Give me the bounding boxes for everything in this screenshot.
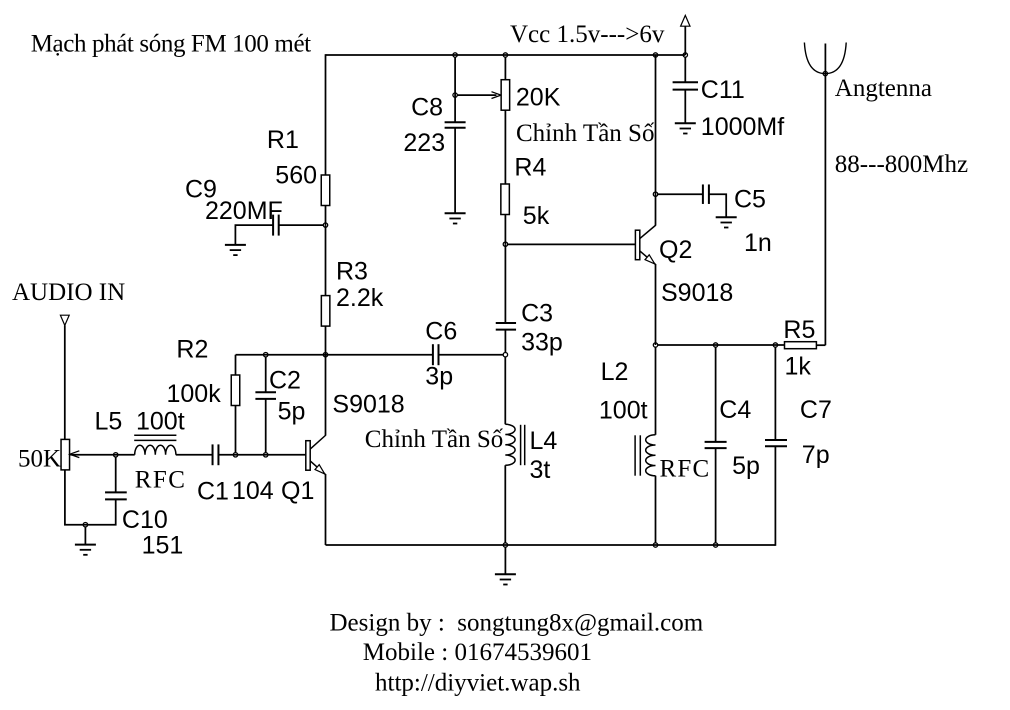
- node Q2 collector top junction: [653, 53, 657, 57]
- label Design by : songtung8x@gmail.com: [330, 610, 704, 637]
- label 100t: [599, 397, 648, 425]
- label R1: [267, 126, 299, 154]
- ground (C8): [445, 213, 466, 223]
- node L2 rail junction: [653, 543, 657, 547]
- wire C3 bottom lead: [504, 330, 506, 353]
- svg-text:50K: 50K: [18, 446, 61, 473]
- label http://diyviet.wap.sh: [375, 670, 581, 697]
- transistor Q2 emitter arrow: [645, 255, 655, 264]
- svg-text:RFC: RFC: [135, 467, 187, 494]
- svg-text:100k: 100k: [167, 380, 222, 408]
- node L4 rail junction: [503, 543, 507, 547]
- wire C3 top lead: [504, 244, 506, 323]
- node C2/base junction: [264, 453, 268, 457]
- svg-text:C7: C7: [800, 396, 832, 424]
- svg-text:3t: 3t: [530, 456, 551, 484]
- capacitor C6: [433, 344, 439, 365]
- svg-text:C10: C10: [122, 506, 168, 534]
- svg-text:Chỉnh Tần Số: Chỉnh Tần Số: [365, 426, 504, 453]
- label Chỉnh Tần Số: [365, 426, 504, 453]
- label C8: [411, 94, 443, 122]
- svg-text:5p: 5p: [732, 452, 760, 480]
- label S9018: [332, 390, 404, 418]
- label 88---800Mhz: [835, 151, 968, 178]
- label 3p: [425, 363, 453, 391]
- node C5 junction: [653, 192, 657, 196]
- wire C4 bottom lead: [715, 448, 717, 543]
- inductor L4 coil: [505, 424, 515, 465]
- wire pot bottom to ground rail: [65, 470, 116, 525]
- node C9/R3 junction: [323, 223, 327, 227]
- wire L5 to C1: [176, 454, 213, 456]
- svg-text:Q1: Q1: [281, 477, 314, 505]
- svg-text:Design by : songtung8x@gmail.: Design by : songtung8x@gmail.com: [330, 610, 704, 637]
- svg-text:R4: R4: [514, 154, 546, 182]
- wire Q2 base horizontal: [508, 243, 636, 245]
- svg-text:5p: 5p: [278, 398, 306, 426]
- wire C9 left plate to ground: [235, 225, 273, 245]
- label 7p: [802, 441, 830, 469]
- label 20K: [516, 84, 561, 112]
- node C2 top junction: [264, 353, 268, 357]
- label C4: [719, 396, 751, 424]
- wire C11 to ground: [684, 90, 686, 124]
- node R2/base junction: [233, 453, 237, 457]
- label RFC: [135, 467, 187, 494]
- wire junction to Q1 collector: [325, 355, 327, 436]
- label 5p: [732, 452, 760, 480]
- wire rail ground stem: [504, 547, 506, 574]
- svg-text:C3: C3: [521, 300, 553, 328]
- svg-text:C11: C11: [701, 76, 745, 104]
- svg-text:100t: 100t: [136, 408, 185, 436]
- label C7: [800, 396, 832, 424]
- svg-text:RFC: RFC: [660, 456, 711, 483]
- transistor Q1 collector: [310, 435, 326, 449]
- potentiometer 50K: [61, 439, 70, 470]
- svg-text:R5: R5: [783, 316, 815, 344]
- svg-text:1000Mf: 1000Mf: [701, 113, 784, 141]
- wire C7 bottom lead: [774, 446, 776, 546]
- label 2.2k: [336, 284, 384, 312]
- wire R3 to oscillator node: [325, 326, 327, 355]
- capacitor C2: [255, 392, 276, 399]
- svg-text:http://diyviet.wap.sh: http://diyviet.wap.sh: [375, 670, 581, 697]
- svg-text:151: 151: [142, 532, 184, 560]
- svg-text:Q2: Q2: [659, 236, 692, 264]
- transistor Q2 collector: [640, 225, 656, 239]
- svg-text:Mạch phát sóng FM 100 mét: Mạch phát sóng FM 100 mét: [31, 31, 311, 58]
- label C10: [122, 506, 168, 534]
- wire C8 to ground: [454, 128, 456, 214]
- capacitor C9: [273, 215, 279, 236]
- svg-text:AUDIO IN: AUDIO IN: [12, 279, 125, 306]
- wire C2 bottom lead: [265, 399, 267, 452]
- svg-text:33p: 33p: [521, 329, 563, 357]
- wire C2 top lead: [265, 357, 267, 392]
- wire R2 vertical top: [235, 355, 237, 375]
- ground (C9): [225, 245, 246, 255]
- label Q2: [659, 236, 692, 264]
- svg-text:C2: C2: [269, 367, 301, 395]
- inductor L2 core: [635, 435, 640, 475]
- label C6: [425, 318, 457, 346]
- wire C5 to ground: [709, 194, 726, 217]
- label 151: [142, 532, 184, 560]
- wire C9 node to R3: [325, 225, 327, 296]
- label C11: [701, 76, 745, 104]
- transistor Q2 base bar: [635, 230, 639, 260]
- svg-text:R2: R2: [176, 336, 208, 364]
- capacitor C1: [213, 444, 219, 465]
- resistor R4: [501, 184, 510, 215]
- label L5: [95, 408, 123, 436]
- antenna symbol: [804, 43, 846, 74]
- wire Q2 emitter to output node: [655, 264, 657, 345]
- label 223: [403, 129, 445, 157]
- node R4/C3/Q2-base junction: [503, 242, 507, 246]
- node 20K top junction: [503, 53, 507, 57]
- transistor Q1 emitter: [310, 461, 325, 475]
- svg-text:L4: L4: [530, 427, 558, 455]
- label C9: [185, 176, 217, 204]
- svg-text:88---800Mhz: 88---800Mhz: [835, 151, 968, 178]
- wire wiper to 20K pot: [457, 94, 496, 96]
- power arrow Vcc: [681, 15, 690, 26]
- wire output rail: [658, 344, 785, 346]
- label 104: [232, 477, 274, 505]
- label C3: [521, 300, 553, 328]
- inductor L5 core: [134, 435, 176, 440]
- wire Vcc to Q2 collector: [655, 55, 657, 225]
- label 3t: [530, 456, 551, 484]
- label 1k: [785, 353, 812, 381]
- inductor L5 (RFC) coil: [135, 445, 176, 455]
- wiper arrow 50K: [70, 451, 80, 458]
- wire C4 top lead: [715, 347, 717, 442]
- wire C10 top lead: [115, 457, 117, 492]
- wire L4 to rail: [504, 465, 506, 542]
- wire C9 right plate to node: [279, 224, 324, 226]
- wire R2 to audio rail: [235, 406, 237, 453]
- label RFC: [660, 456, 711, 483]
- ground (C5): [716, 217, 737, 227]
- svg-text:20K: 20K: [516, 84, 561, 112]
- svg-text:1n: 1n: [744, 229, 772, 257]
- wire ground stem (C10 node): [84, 527, 86, 545]
- svg-text:S9018: S9018: [332, 390, 404, 418]
- svg-text:L2: L2: [601, 358, 629, 386]
- ground (C11): [675, 123, 696, 133]
- node C8 top junction: [453, 53, 457, 57]
- inductor L4 core: [521, 425, 525, 465]
- label Chỉnh Tần Số: [516, 120, 655, 147]
- wire 20K to R4: [504, 110, 506, 184]
- label Vcc 1.5v---&gt;6v: [510, 21, 665, 48]
- wire C1 to Q1 base: [218, 454, 305, 456]
- node Vcc/C11 junction: [683, 53, 687, 57]
- svg-text:560: 560: [275, 162, 317, 190]
- label L4: [530, 427, 558, 455]
- resistor R2: [231, 375, 240, 406]
- svg-text:R1: R1: [267, 126, 299, 154]
- wire Q1 emitter to ground rail: [325, 474, 327, 545]
- capacitor C5: [703, 184, 709, 204]
- resistor R3: [321, 296, 330, 327]
- svg-text:C5: C5: [734, 186, 766, 214]
- label Mobile : 01674539601: [363, 639, 592, 666]
- inductor L2 (RFC) coil: [646, 435, 656, 476]
- wire R1 to C9 node: [325, 206, 327, 226]
- wire C5 horizontal: [658, 193, 703, 195]
- node C4 top junction: [713, 343, 717, 347]
- label 220MF: [205, 197, 283, 225]
- input terminal AUDIO IN: [60, 315, 69, 325]
- capacitor C10: [105, 492, 127, 499]
- transistor Q2 emitter: [640, 251, 656, 265]
- wire Vcc top rail: [326, 54, 686, 56]
- node C3/L4 junction: [503, 353, 507, 357]
- wire antenna feed line: [824, 44, 826, 346]
- label 100t: [136, 408, 185, 436]
- svg-text:2.2k: 2.2k: [336, 284, 384, 312]
- label C1: [197, 478, 229, 506]
- svg-text:C6: C6: [425, 318, 457, 346]
- label 100k: [167, 380, 222, 408]
- label Mạch phát sóng FM 100 mét: [31, 31, 311, 58]
- svg-text:5k: 5k: [523, 202, 550, 230]
- node Q2 emitter/output junction: [653, 343, 657, 347]
- label 5k: [523, 202, 550, 230]
- wire audio input vertical: [64, 325, 66, 439]
- wire C7 top lead: [774, 347, 776, 440]
- node C10/audio junction: [114, 453, 118, 457]
- node antenna feed: [823, 71, 827, 75]
- svg-text:C1: C1: [197, 478, 229, 506]
- transistor Q1 base bar: [306, 441, 310, 471]
- svg-text:1k: 1k: [785, 353, 812, 381]
- wire L2 top lead: [655, 347, 657, 435]
- wire wiper to L5: [70, 454, 134, 456]
- wire R2 top to C6 left: [236, 354, 433, 356]
- label C2: [269, 367, 301, 395]
- svg-text:C8: C8: [411, 94, 443, 122]
- svg-text:C4: C4: [719, 396, 751, 424]
- capacitor C4: [705, 442, 727, 448]
- resistor R1: [321, 175, 330, 206]
- wire C6 right plate to C3 node: [439, 354, 504, 356]
- resistor R5: [785, 342, 817, 349]
- svg-text:220MF: 220MF: [205, 197, 283, 225]
- wire C8 vertical top: [454, 57, 456, 122]
- label R2: [176, 336, 208, 364]
- label 50K: [18, 446, 61, 473]
- label R5: [783, 316, 815, 344]
- label R3: [336, 258, 368, 286]
- svg-text:L5: L5: [95, 408, 123, 436]
- svg-text:223: 223: [403, 129, 445, 157]
- wire C11 top lead: [684, 57, 686, 82]
- svg-text:Mobile : 01674539601: Mobile : 01674539601: [363, 639, 592, 666]
- label AUDIO IN: [12, 279, 125, 306]
- wire Vcc to 20K pot: [504, 57, 506, 79]
- node C8 wiper junction: [453, 93, 457, 97]
- capacitor C8: [445, 122, 466, 128]
- label 1n: [744, 229, 772, 257]
- wire Vcc arrow stem: [684, 26, 686, 55]
- capacitor C7: [765, 440, 787, 446]
- node C7/R5 junction: [773, 343, 777, 347]
- wire L4 top lead: [504, 357, 506, 424]
- svg-text:Angtenna: Angtenna: [835, 75, 932, 102]
- transistor Q1 emitter arrow: [315, 465, 325, 474]
- node C10 ground junction: [83, 523, 87, 527]
- wire L2 to rail: [655, 476, 657, 543]
- ground (main rail): [495, 574, 516, 584]
- svg-text:R3: R3: [336, 258, 368, 286]
- label R4: [514, 154, 546, 182]
- ground (audio input): [75, 545, 96, 555]
- svg-text:7p: 7p: [802, 441, 830, 469]
- node oscillator base rail junction: [323, 353, 327, 357]
- label S9018: [661, 279, 733, 307]
- label 560: [275, 162, 317, 190]
- wiper arrow 20K: [492, 92, 502, 99]
- label Angtenna: [835, 75, 932, 102]
- svg-text:104: 104: [232, 477, 274, 505]
- svg-text:Chỉnh Tần Số: Chỉnh Tần Số: [516, 120, 655, 147]
- label 33p: [521, 329, 563, 357]
- node C4 rail junction: [713, 543, 717, 547]
- label 5p: [278, 398, 306, 426]
- label C5: [734, 186, 766, 214]
- svg-text:3p: 3p: [425, 363, 453, 391]
- svg-text:Vcc 1.5v--->6v: Vcc 1.5v--->6v: [510, 21, 665, 48]
- label Q1: [281, 477, 314, 505]
- wire bottom ground rail: [326, 544, 776, 546]
- label 1000Mf: [701, 113, 784, 141]
- potentiometer 20K: [501, 80, 510, 111]
- svg-text:S9018: S9018: [661, 279, 733, 307]
- wire R5 to antenna line: [816, 344, 825, 346]
- wire main left vertical (Vcc to R1): [325, 54, 327, 175]
- wire R4 to Q2 base node: [504, 215, 506, 245]
- capacitor C3: [496, 323, 516, 330]
- label L2: [601, 358, 629, 386]
- capacitor C11: [673, 82, 698, 89]
- svg-text:100t: 100t: [599, 397, 648, 425]
